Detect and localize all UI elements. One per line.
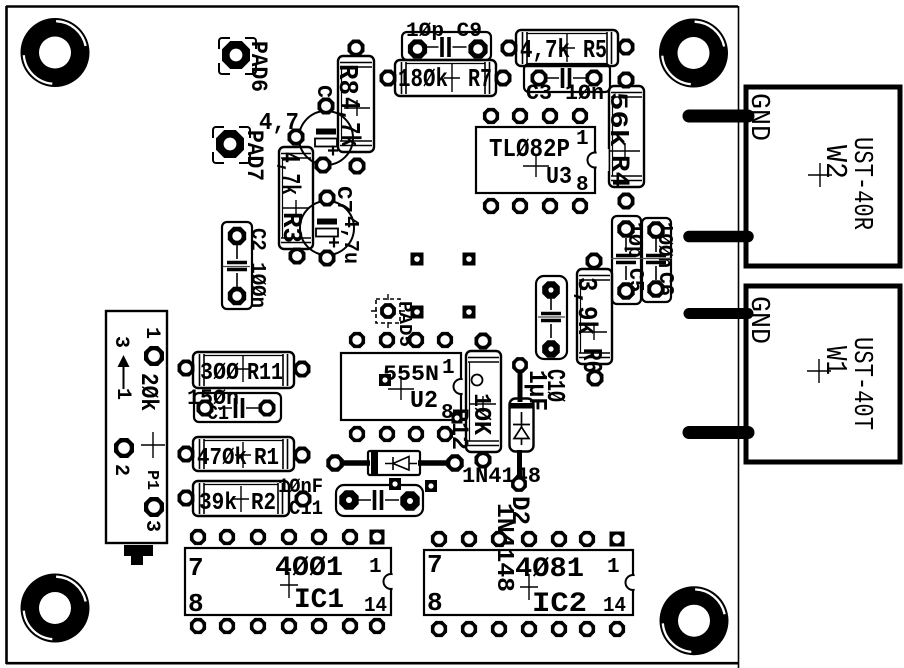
pad PAD7 copper [216, 130, 244, 158]
connector W1 UST-40T [743, 286, 900, 462]
svg-text:R8: R8 [331, 64, 361, 95]
svg-text:R11: R11 [247, 360, 283, 387]
svg-text:3,9k: 3,9k [570, 277, 600, 335]
pads IC1 pins [190, 529, 385, 634]
resistor R2 39k [193, 481, 289, 517]
svg-text:47Øk: 47Øk [197, 445, 247, 472]
svg-text:4Ø81: 4Ø81 [515, 554, 584, 585]
capacitor C3 10n [524, 64, 610, 106]
svg-text:39k: 39k [199, 490, 237, 517]
pads R4 [618, 72, 635, 210]
mounting hole bottom-right [660, 586, 729, 655]
pad PAD6 [219, 38, 271, 92]
via squares center [411, 253, 476, 319]
svg-text:R1: R1 [254, 445, 279, 472]
via square right of U2 [452, 413, 463, 424]
pads IC2 pins [431, 531, 625, 637]
pad PAD5 [371, 294, 414, 347]
connector pin wire W2 bottom [689, 231, 748, 243]
resistor R8 4,7k [331, 56, 374, 152]
pads C10 [542, 281, 560, 358]
diode D2 1N4148 [490, 399, 534, 593]
gate IC2 4081 [424, 550, 647, 620]
timer U2 555N [341, 353, 475, 425]
wire D1 leads [342, 460, 448, 466]
svg-text:1N4148: 1N4148 [462, 464, 541, 489]
pad PAD7 [213, 127, 267, 181]
svg-text:GND: GND [743, 296, 773, 344]
svg-text:7: 7 [188, 553, 204, 583]
pads C1 [197, 400, 276, 417]
pads R7 [380, 70, 512, 87]
svg-text:IC2: IC2 [532, 589, 587, 620]
pads D2 [511, 357, 528, 492]
svg-text:4,7k: 4,7k [520, 35, 570, 65]
capacitor C11 10nF [278, 476, 423, 521]
capacitor C2 100n [222, 222, 268, 309]
svg-text:8: 8 [188, 589, 204, 619]
svg-text:R4: R4 [605, 155, 634, 188]
capacitor C6 100n [611, 218, 676, 302]
svg-text:1ØK: 1ØK [467, 393, 494, 436]
pads C9 [408, 39, 488, 58]
mounting hole top-left [21, 18, 90, 87]
capacitor C8 4,7u electrolytic [259, 85, 353, 165]
pads R6 [586, 253, 604, 387]
svg-text:U3: U3 [546, 164, 572, 191]
resistor R7 180k [395, 60, 496, 96]
pads P1 [114, 346, 164, 517]
svg-text:18Øk: 18Øk [398, 64, 448, 94]
pads C6 [647, 221, 664, 297]
pads C8 [315, 98, 335, 174]
board right edge line [738, 6, 740, 668]
wire D2 leads [517, 372, 523, 478]
svg-text:1: 1 [576, 128, 589, 151]
svg-text:C2 1ØØn: C2 1ØØn [245, 228, 268, 308]
svg-text:1: 1 [369, 556, 382, 579]
resistor R5 4,7k [516, 30, 618, 66]
svg-text:8: 8 [427, 588, 443, 618]
svg-text:14: 14 [364, 595, 387, 618]
pads C3 [531, 70, 603, 87]
svg-text:R2: R2 [251, 490, 276, 517]
svg-text:P1: P1 [142, 470, 161, 490]
mounting hole bottom-left [21, 574, 90, 643]
svg-text:U2: U2 [410, 388, 438, 415]
svg-text:4ØØ1: 4ØØ1 [275, 553, 343, 584]
resistor R12 10K [446, 351, 501, 452]
pads R8 [348, 40, 366, 175]
pads R12 [475, 333, 492, 469]
resistor R4 56k [603, 86, 644, 188]
svg-text:8: 8 [576, 174, 589, 197]
pad PAD5 copper [380, 303, 396, 319]
connector pin wire GND W1 top [689, 308, 748, 319]
svg-text:IC1: IC1 [294, 585, 344, 616]
pads R3 [288, 129, 306, 265]
pads U2 pins [349, 332, 453, 442]
pads R11 [178, 360, 311, 378]
capacitor C7 4,7u electrolytic [300, 186, 361, 264]
pads C11 [339, 490, 419, 510]
svg-text:R7: R7 [468, 64, 492, 94]
pads D1 [326, 454, 463, 471]
pads C2 [228, 227, 246, 305]
svg-text:7: 7 [427, 550, 443, 580]
capacitor C5 10p [612, 216, 646, 304]
svg-text:555N: 555N [383, 362, 439, 387]
via squares near C11 [389, 478, 437, 492]
resistor R1 470k [193, 437, 294, 472]
svg-text:1: 1 [140, 327, 163, 339]
svg-text:4,7u: 4,7u [338, 216, 361, 264]
svg-text:3: 3 [140, 520, 163, 532]
pads R2 [178, 490, 312, 508]
svg-text:3: 3 [109, 336, 132, 348]
connector pin wire W1 bottom [689, 426, 748, 439]
pad IC1 pin14 square [370, 530, 385, 545]
svg-text:PAD7: PAD7 [241, 130, 267, 181]
pads C5 [617, 220, 634, 299]
capacitor C10 1uF [522, 276, 570, 411]
potentiometer P1 20k [106, 311, 167, 565]
via square on U2 [379, 374, 391, 386]
pad PAD6 copper [222, 41, 250, 69]
svg-text:14: 14 [603, 595, 626, 618]
pads R5 [501, 39, 635, 57]
svg-text:1: 1 [442, 357, 455, 380]
gate IC1 4001 [185, 548, 405, 619]
resistor R3 4,7k [273, 147, 313, 249]
svg-text:2Øk: 2Øk [134, 373, 161, 411]
svg-text:W2: W2 [817, 145, 852, 179]
mounting hole top-right [659, 19, 728, 88]
svg-text:R5: R5 [583, 35, 607, 65]
svg-text:R6: R6 [575, 348, 605, 373]
svg-text:1: 1 [607, 556, 620, 579]
svg-text:TLØ82P: TLØ82P [489, 134, 570, 164]
capacitor C1 150n [187, 386, 281, 426]
pad IC2 pin14 square [610, 532, 625, 547]
resistor R11 300 [193, 352, 294, 388]
svg-text:4,7k: 4,7k [273, 152, 303, 195]
connector W2 UST-40R [743, 87, 900, 266]
pads U3 pins [483, 108, 588, 214]
svg-text:2: 2 [109, 464, 132, 476]
connector pin wire GND W2 top [689, 110, 748, 123]
resistor R6 3,9k [570, 269, 612, 373]
pads R1 [178, 446, 311, 464]
svg-text:1N4148: 1N4148 [490, 503, 517, 592]
board outline [6, 6, 738, 664]
diode D1 1N4148 [368, 451, 541, 489]
capacitor C9 10p [402, 20, 491, 60]
svg-text:1: 1 [111, 388, 134, 400]
svg-text:56k: 56k [603, 92, 632, 147]
svg-text:3ØØ: 3ØØ [200, 360, 239, 387]
pads C7 [319, 190, 336, 267]
op-amp U3 TL082P [476, 127, 609, 197]
